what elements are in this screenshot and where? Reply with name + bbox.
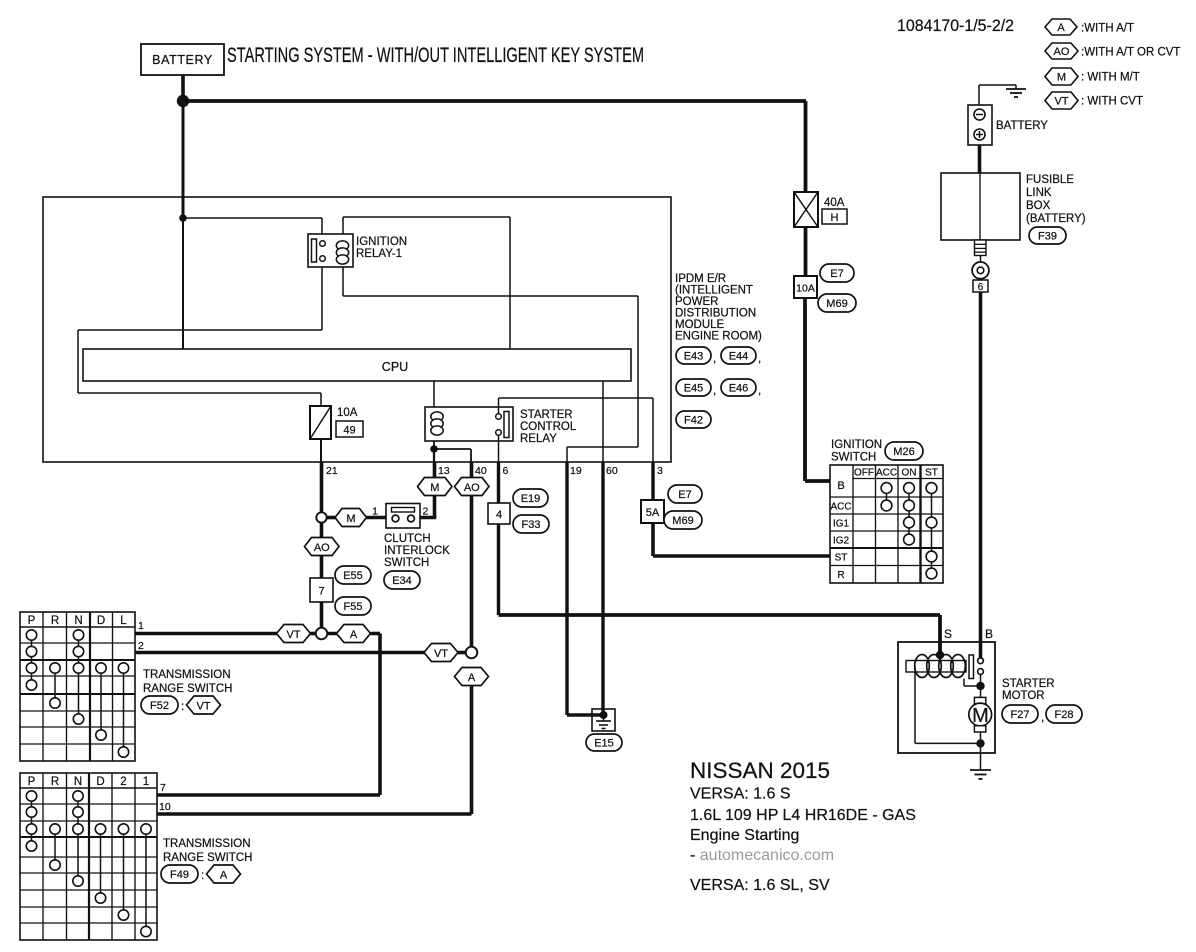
svg-text:F27: F27: [1011, 709, 1030, 721]
connector label E7 (5A): [668, 485, 702, 503]
connector label F28: [1046, 705, 1082, 723]
label IPDM E/R block: [675, 273, 762, 343]
svg-text:1084170-1/5-2/2: 1084170-1/5-2/2: [897, 17, 1014, 35]
svg-text:N: N: [74, 776, 82, 788]
transmission range switch table F52: [20, 612, 135, 761]
svg-text:LINK: LINK: [1026, 187, 1052, 199]
svg-text:M69: M69: [672, 515, 693, 527]
fuse 10A 49: [310, 406, 331, 439]
ignition switch table: [830, 465, 943, 583]
svg-text:MODULE: MODULE: [675, 319, 725, 331]
wire main battery bus horizontal: [183, 99, 806, 103]
svg-text:F33: F33: [522, 519, 541, 531]
wire junction to pin 40: [434, 449, 471, 462]
svg-text:N: N: [74, 615, 82, 627]
wire table F52 pin1 to VT hexagon: [135, 632, 280, 636]
connector label F55: [335, 597, 371, 615]
wire battery bus down to 40A fuse: [804, 101, 808, 192]
svg-text:E7: E7: [678, 489, 691, 501]
svg-text:R: R: [837, 570, 844, 581]
svg-text:,: ,: [758, 385, 761, 397]
wire ignition relay coil top to CPU: [343, 217, 510, 349]
svg-text:E34: E34: [392, 575, 412, 587]
wire relay contact top to pin 3: [499, 398, 654, 462]
svg-text:1.6L 109 HP L4 HR16DE - GAS: 1.6L 109 HP L4 HR16DE - GAS: [690, 807, 916, 824]
svg-text:RELAY-1: RELAY-1: [356, 248, 402, 260]
svg-text:E19: E19: [521, 493, 541, 505]
wire relay coil bottom to junction: [433, 441, 435, 449]
connector label E19: [513, 489, 548, 507]
ground box E15: [592, 709, 615, 731]
wire junction to A hexagon: [322, 632, 339, 636]
wire solenoid return: [915, 666, 981, 743]
svg-text:B: B: [985, 627, 993, 641]
svg-text:49: 49: [343, 425, 355, 437]
label STARTER MOTOR: [1002, 678, 1055, 702]
fusible link 40A: [794, 192, 818, 227]
svg-text:: WITH CVT: : WITH CVT: [1081, 96, 1143, 108]
ignition switch contact connector lines: [887, 488, 932, 574]
wire CPU to starter control relay coil: [433, 381, 435, 407]
ground (right battery): [979, 85, 1026, 105]
connector label F42: [676, 411, 711, 428]
svg-text:2: 2: [120, 776, 126, 788]
svg-text:BOX: BOX: [1026, 200, 1051, 212]
svg-text:3: 3: [657, 465, 663, 477]
wire CPU to pin 60: [602, 381, 604, 462]
svg-text:Engine Starting: Engine Starting: [690, 827, 799, 844]
svg-text:AO: AO: [464, 482, 480, 494]
hexagon AO (pin 21): [305, 538, 340, 556]
svg-text:VERSA: 1.6 S: VERSA: 1.6 S: [690, 786, 791, 803]
svg-text:- automecanico.com: - automecanico.com: [690, 847, 834, 864]
svg-text:F39: F39: [1038, 231, 1057, 243]
wire ignition relay coil bottom to pin 19: [343, 267, 638, 462]
connector label E45: [676, 379, 716, 397]
svg-text:R: R: [51, 615, 59, 627]
svg-text:FUSIBLE: FUSIBLE: [1026, 174, 1074, 186]
svg-text::: :: [181, 701, 184, 713]
node junction pin21/clutch (open): [316, 512, 326, 522]
wire junction to pin 13: [433, 449, 435, 462]
node starter B junction: [976, 682, 984, 690]
legend hexagon A: [1045, 19, 1077, 35]
legend hexagon M: [1045, 68, 1078, 85]
svg-text:AO: AO: [314, 542, 330, 554]
svg-text:INTERLOCK: INTERLOCK: [384, 545, 450, 557]
wire box 4 down and right to starter motor S: [499, 524, 941, 655]
svg-text:6: 6: [503, 465, 509, 477]
label CLUTCH INTERLOCK SWITCH: [384, 533, 450, 569]
legend hexagon AO: [1045, 43, 1078, 59]
svg-text:BATTERY: BATTERY: [996, 120, 1048, 132]
hexagon A (F49 label): [207, 865, 241, 883]
svg-text:E7: E7: [830, 268, 843, 280]
svg-text:S: S: [944, 627, 952, 641]
svg-text:M: M: [430, 482, 439, 494]
label IGNITION RELAY-1: [356, 236, 407, 260]
svg-text:M: M: [346, 513, 355, 525]
svg-text:2: 2: [138, 640, 144, 652]
starter solenoid plunger bar: [969, 655, 974, 679]
wire A hexagon down to table F49 pin 10: [157, 686, 472, 815]
svg-text:F55: F55: [344, 601, 363, 613]
fusible link element below box: [975, 240, 987, 256]
svg-text:,: ,: [713, 385, 716, 397]
hexagon M (clutch wire): [335, 509, 367, 527]
svg-text:7: 7: [318, 586, 324, 598]
svg-text:SWITCH: SWITCH: [384, 557, 429, 569]
fuse 5A: [641, 500, 664, 523]
svg-text:BATTERY: BATTERY: [152, 53, 213, 67]
wire pin 6 down to box 4: [497, 462, 500, 503]
svg-text:10: 10: [159, 801, 171, 813]
svg-text:MOTOR: MOTOR: [1002, 690, 1045, 702]
transmission range switch table F49: [20, 773, 157, 940]
svg-text:M: M: [972, 705, 989, 727]
svg-text:,: ,: [758, 353, 761, 365]
wire table F52 pin2 to VT hexagon: [135, 651, 428, 655]
box 4 connector (pin 6): [488, 503, 510, 524]
table F49 column headers P R N D 2 1: [28, 776, 150, 788]
clutch interlock switch: [386, 504, 420, 529]
svg-text:IG1: IG1: [833, 519, 850, 530]
svg-text:P: P: [28, 615, 36, 627]
svg-text:E44: E44: [729, 351, 749, 363]
battery (right): [968, 105, 992, 145]
svg-text:1: 1: [138, 620, 144, 632]
svg-text:E15: E15: [594, 738, 614, 750]
svg-text:E55: E55: [343, 570, 363, 582]
connector label M26: [885, 442, 923, 460]
svg-text:60: 60: [606, 465, 618, 477]
ignition switch column headers: [854, 468, 938, 479]
hexagon A (pin 40 wire): [455, 668, 489, 686]
svg-text:B: B: [837, 480, 844, 492]
node battery branch junction: [179, 214, 187, 222]
label STARTER CONTROL RELAY: [520, 409, 577, 445]
svg-text:ON: ON: [902, 468, 917, 479]
wire pin 40 down: [470, 462, 474, 648]
wire pin 19 down to ground E15: [567, 462, 601, 715]
battery box (top left): [141, 44, 224, 75]
ground (starter motor): [970, 770, 991, 779]
node S junction on solenoid: [936, 651, 944, 659]
svg-text:13: 13: [438, 465, 450, 477]
wire battery to bus: [181, 75, 185, 101]
svg-text:: WITH M/T: : WITH M/T: [1081, 72, 1140, 84]
svg-text:ACC: ACC: [876, 468, 897, 479]
svg-text:CPU: CPU: [382, 360, 408, 374]
label IGNITION SWITCH: [831, 439, 882, 464]
svg-text:TRANSMISSION: TRANSMISSION: [163, 838, 251, 850]
table F52 contact circles: [26, 630, 128, 757]
svg-text:4: 4: [496, 509, 502, 521]
svg-text:AO: AO: [1054, 46, 1070, 58]
svg-text:ST: ST: [925, 468, 938, 479]
CPU box: [83, 349, 631, 381]
svg-text:OFF: OFF: [854, 468, 874, 479]
ignition switch contact circles: [881, 483, 937, 579]
svg-text:CLUTCH: CLUTCH: [384, 533, 431, 545]
wire ignition relay contact to 10A fuse 49: [78, 267, 322, 406]
connector label M69 (5A): [664, 511, 702, 529]
wire 40A to 10A fuse: [804, 227, 808, 276]
starter motor box: [898, 642, 995, 753]
svg-text:IGNITION: IGNITION: [831, 439, 882, 451]
svg-text:7: 7: [160, 782, 166, 794]
wire relay contact bottom to pin 6: [498, 435, 500, 462]
svg-text:5A: 5A: [646, 507, 660, 519]
node relay output junction: [430, 445, 438, 453]
hexagon AO (pin 40): [455, 478, 490, 496]
pin box 7 (E55/F55): [310, 578, 333, 602]
hexagon VT (pin 1 wire): [277, 625, 311, 643]
wire pin 60 down to ground E15: [601, 462, 604, 715]
table F52 column headers P R N D L: [28, 615, 128, 627]
svg-text:,: ,: [1041, 712, 1044, 724]
svg-text:DISTRIBUTION: DISTRIBUTION: [675, 308, 756, 320]
connector label F52: [141, 696, 184, 714]
node starter ground junction: [976, 739, 984, 747]
svg-text:21: 21: [326, 465, 338, 477]
svg-text:A: A: [350, 629, 358, 641]
wire M hexagon to pin21 line: [322, 516, 336, 520]
connector label E43: [676, 347, 716, 365]
svg-text:40: 40: [475, 465, 487, 477]
label TRANSMISSION RANGE SWITCH (F49): [163, 838, 252, 864]
svg-text:VERSA: 1.6 SL, SV: VERSA: 1.6 SL, SV: [690, 877, 830, 894]
svg-text:19: 19: [570, 465, 582, 477]
svg-text:VT: VT: [1054, 96, 1068, 108]
table F49 contact circles: [26, 791, 151, 937]
ignition relay-1: [308, 234, 353, 267]
wire battery to fusible link box: [978, 145, 982, 173]
svg-text:RANGE SWITCH: RANGE SWITCH: [143, 683, 232, 695]
ignition switch row labels: [830, 480, 851, 581]
svg-text:E43: E43: [684, 351, 704, 363]
svg-text:L: L: [120, 615, 127, 627]
wire pin 21 down: [320, 462, 324, 628]
wire 5A to ignition switch ST: [653, 523, 830, 556]
hexagon M (pin 13): [418, 478, 453, 496]
svg-text:VT: VT: [196, 701, 210, 713]
svg-text:1: 1: [143, 776, 149, 788]
svg-text:A: A: [1057, 22, 1065, 34]
svg-text:(BATTERY): (BATTERY): [1026, 213, 1086, 225]
starter solenoid coil: [906, 655, 966, 678]
svg-text:RELAY: RELAY: [520, 433, 557, 445]
svg-text:,: ,: [713, 353, 716, 365]
svg-text:A: A: [468, 672, 476, 684]
table F52 contact connector lines: [32, 635, 124, 752]
svg-text:E45: E45: [684, 383, 704, 395]
wire 10A fuse to ignition switch B: [803, 298, 807, 481]
svg-text:CONTROL: CONTROL: [520, 421, 577, 433]
starter contact circles (B): [978, 658, 984, 675]
label TRANSMISSION RANGE SWITCH (F52): [143, 669, 232, 695]
wire connector 6 down to starter motor B: [979, 292, 983, 658]
svg-text:M26: M26: [893, 446, 914, 458]
svg-text:VT: VT: [286, 629, 300, 641]
connector label F49: [161, 865, 204, 883]
svg-text:ENGINE ROOM): ENGINE ROOM): [675, 331, 762, 343]
svg-text:P: P: [28, 776, 36, 788]
wire pin 3 down to 5A fuse: [651, 462, 654, 500]
hexagon A (pin 1 wire): [337, 625, 371, 643]
svg-text:2: 2: [423, 506, 429, 518]
connector label F27: [1002, 705, 1044, 724]
svg-text:IPDM E/R: IPDM E/R: [675, 273, 726, 285]
connector label F39: [1029, 227, 1066, 244]
svg-text:M69: M69: [826, 298, 847, 310]
wire battery into IPDM down to CPU: [182, 101, 185, 218]
label box H: [822, 209, 847, 224]
connector label E44: [721, 347, 761, 365]
svg-text:H: H: [831, 212, 839, 224]
svg-text:R: R: [51, 776, 59, 788]
legend hexagon VT: [1045, 92, 1078, 109]
hexagon VT (F52 label): [187, 696, 221, 714]
connector label E55: [335, 566, 371, 584]
table F49 contact connector lines: [32, 796, 147, 932]
label box 49: [336, 421, 363, 437]
connector label E46: [721, 379, 761, 397]
svg-text:TRANSMISSION: TRANSMISSION: [143, 669, 231, 681]
fusible link box (battery): [941, 173, 1020, 240]
svg-text:F28: F28: [1055, 709, 1074, 721]
svg-text:10A: 10A: [796, 283, 815, 295]
svg-text:ST: ST: [835, 553, 848, 564]
fuse 10A (fuse block): [794, 276, 817, 298]
wire plunger to B junction: [964, 674, 981, 686]
svg-text:F49: F49: [170, 869, 189, 881]
svg-text:STARTER: STARTER: [520, 409, 573, 421]
connector label F33: [513, 515, 549, 533]
svg-text:SWITCH: SWITCH: [831, 452, 876, 464]
starter control relay: [425, 407, 513, 441]
svg-text:POWER: POWER: [675, 296, 718, 308]
svg-text::: :: [201, 870, 204, 882]
node junction table1 pin1 (open): [316, 628, 328, 640]
connector label M69: [818, 294, 856, 312]
starter motor M: [969, 686, 992, 743]
wire A hexagon to table F49 pin 7: [157, 634, 380, 796]
wire to starter ground: [980, 743, 982, 770]
svg-text:NISSAN 2015: NISSAN 2015: [690, 758, 830, 783]
connector ring: [972, 256, 989, 279]
wire branch to ignition relay contact: [183, 218, 322, 234]
svg-text:F42: F42: [684, 415, 703, 427]
svg-text:STARTING SYSTEM - WITH/OUT INT: STARTING SYSTEM - WITH/OUT INTELLIGENT K…: [227, 44, 644, 67]
label FUSIBLE LINK BOX (BATTERY): [1026, 174, 1086, 225]
svg-text:VT: VT: [434, 648, 448, 660]
svg-text:(INTELLIGENT: (INTELLIGENT: [675, 285, 753, 297]
svg-text:M: M: [1057, 72, 1066, 84]
svg-text:F52: F52: [150, 700, 169, 712]
svg-text:STARTER: STARTER: [1002, 678, 1055, 690]
wire clutch switch pin1 to junction: [366, 516, 386, 520]
svg-text:D: D: [96, 776, 104, 788]
connector label E34: [384, 571, 420, 589]
svg-text:RANGE SWITCH: RANGE SWITCH: [163, 852, 252, 864]
svg-text:A: A: [220, 870, 228, 882]
IPDM E/R module box: [43, 197, 671, 462]
wire pin 13 down through M: [420, 462, 436, 518]
svg-text:IGNITION: IGNITION: [356, 236, 407, 248]
node battery bus junction: [177, 95, 189, 107]
connector label E7: [820, 264, 854, 282]
svg-text:40A: 40A: [824, 197, 845, 209]
svg-text:6: 6: [978, 282, 984, 293]
wire VT hexagon to junction: [311, 632, 322, 636]
svg-text::WITH A/T OR CVT: :WITH A/T OR CVT: [1081, 47, 1180, 59]
svg-text:ACC: ACC: [830, 502, 851, 513]
svg-text::WITH A/T: :WITH A/T: [1081, 23, 1134, 35]
hexagon VT (pin 2 wire): [424, 644, 458, 662]
node junction table1 pin2 (open): [466, 647, 478, 659]
wire VT hexagon to junction 2: [458, 651, 472, 655]
svg-text:D: D: [97, 615, 105, 627]
svg-text:IG2: IG2: [833, 536, 850, 547]
connector label E15: [586, 734, 622, 751]
svg-text:E46: E46: [729, 383, 749, 395]
svg-text:10A: 10A: [337, 407, 358, 419]
wire fuse 49 to pin 21: [320, 439, 322, 462]
pin box 6: [973, 280, 988, 293]
